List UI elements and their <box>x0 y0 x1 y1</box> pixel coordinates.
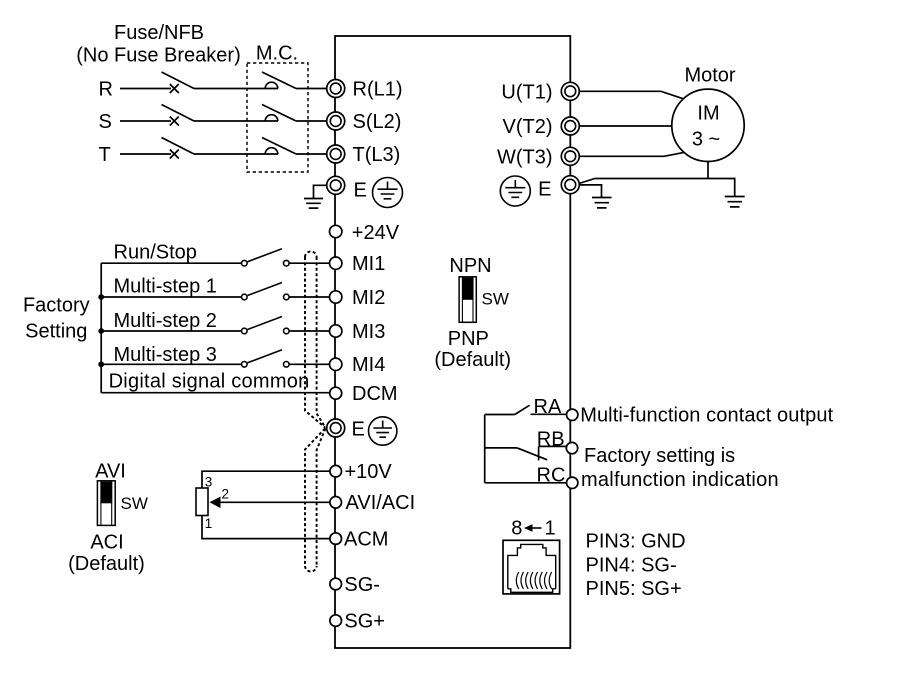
svg-text:SG-: SG- <box>344 574 380 596</box>
svg-text:Multi-function contact output: Multi-function contact output <box>580 405 833 427</box>
svg-text:(Default): (Default) <box>68 553 145 575</box>
svg-text:RB: RB <box>537 428 565 450</box>
svg-text:PIN3: GND: PIN3: GND <box>586 530 686 552</box>
svg-text:RA: RA <box>534 396 562 418</box>
svg-text:R(L1): R(L1) <box>353 78 403 100</box>
svg-text:MI2: MI2 <box>352 287 385 309</box>
svg-text:E: E <box>352 419 365 441</box>
svg-text:+24V: +24V <box>352 222 400 244</box>
svg-text:MI1: MI1 <box>352 253 385 275</box>
svg-text:MI4: MI4 <box>352 354 385 376</box>
svg-text:R: R <box>99 78 113 100</box>
svg-text:SG+: SG+ <box>344 610 385 632</box>
svg-text:PIN4: SG-: PIN4: SG- <box>586 555 677 577</box>
svg-text:Multi-step 3: Multi-step 3 <box>114 344 217 366</box>
svg-text:Motor: Motor <box>684 65 735 87</box>
svg-text:Factory setting is: Factory setting is <box>584 445 735 467</box>
svg-text:T(L3): T(L3) <box>353 144 401 166</box>
svg-text:U(T1): U(T1) <box>501 81 552 103</box>
svg-text:Setting: Setting <box>25 321 87 343</box>
svg-text:RC: RC <box>537 464 566 486</box>
svg-text:AVI/ACI: AVI/ACI <box>346 492 416 514</box>
svg-text:8: 8 <box>511 518 522 540</box>
svg-text:3 ~: 3 ~ <box>692 129 720 151</box>
svg-text:ACI: ACI <box>90 532 123 554</box>
svg-text:E: E <box>354 180 367 202</box>
svg-text:S: S <box>99 111 112 133</box>
svg-text:1: 1 <box>544 518 555 540</box>
svg-text:W(T3): W(T3) <box>497 146 553 168</box>
svg-text:(Default): (Default) <box>434 349 511 371</box>
svg-text:malfunction indication: malfunction indication <box>581 469 779 491</box>
svg-text:MI3: MI3 <box>352 321 385 343</box>
svg-text:Fuse/NFB: Fuse/NFB <box>114 22 204 44</box>
svg-text:V(T2): V(T2) <box>503 116 553 138</box>
svg-text:S(L2): S(L2) <box>353 111 402 133</box>
svg-text:3: 3 <box>205 475 213 490</box>
svg-text:Digital signal common: Digital signal common <box>109 371 310 393</box>
svg-text:(No Fuse Breaker): (No Fuse Breaker) <box>76 44 241 66</box>
svg-text:Multi-step 1: Multi-step 1 <box>114 276 217 298</box>
svg-text:+10V: +10V <box>345 461 393 483</box>
svg-text:AVI: AVI <box>95 461 126 483</box>
svg-text:E: E <box>538 179 551 201</box>
svg-text:NPN: NPN <box>449 255 491 277</box>
svg-text:M.C.: M.C. <box>256 43 298 65</box>
svg-text:SW: SW <box>121 494 148 513</box>
svg-text:1: 1 <box>205 516 213 531</box>
svg-text:PNP: PNP <box>448 328 489 350</box>
svg-text:DCM: DCM <box>352 383 398 405</box>
svg-text:2: 2 <box>222 486 230 501</box>
svg-text:Run/Stop: Run/Stop <box>114 241 197 263</box>
svg-text:SW: SW <box>482 290 509 309</box>
svg-text:PIN5: SG+: PIN5: SG+ <box>586 578 682 600</box>
svg-text:Multi-step 2: Multi-step 2 <box>114 310 217 332</box>
svg-text:Factory: Factory <box>23 295 90 317</box>
svg-text:IM: IM <box>697 103 719 125</box>
svg-text:ACM: ACM <box>344 528 388 550</box>
svg-text:T: T <box>99 144 111 166</box>
